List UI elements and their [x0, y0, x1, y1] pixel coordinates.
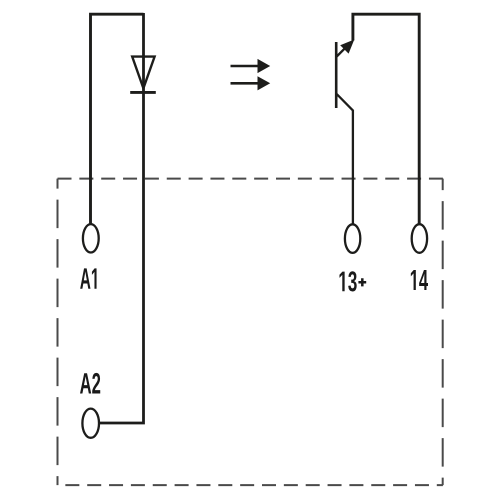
label 14 — [411, 270, 428, 290]
terminal A1 — [83, 224, 99, 252]
LED diode cathode bar — [130, 91, 156, 94]
phototransistor collector arrowhead — [340, 40, 354, 54]
phototransistor collector lead — [336, 44, 349, 57]
LED diode (anode triangle) — [132, 57, 154, 89]
phototransistor base bar — [335, 42, 338, 108]
wire: input top loop (A1 riser, top bar) — [91, 14, 144, 224]
label 13+ — [339, 271, 366, 291]
terminal 14 — [412, 224, 427, 253]
label A1 — [80, 268, 96, 288]
label A2 — [80, 373, 100, 394]
module outline (dashed enclosure) — [58, 179, 443, 486]
phototransistor emitter lead — [336, 94, 353, 225]
terminal 13+ — [345, 224, 360, 253]
wire: output top loop (collector riser, top bar, pin14 riser) — [353, 14, 419, 224]
terminal A2 — [82, 409, 99, 438]
optocoupler light arrow 2 — [231, 76, 271, 90]
optocoupler light arrow 1 — [231, 59, 271, 73]
wire: diode branch down to A2 jog — [100, 13, 144, 423]
